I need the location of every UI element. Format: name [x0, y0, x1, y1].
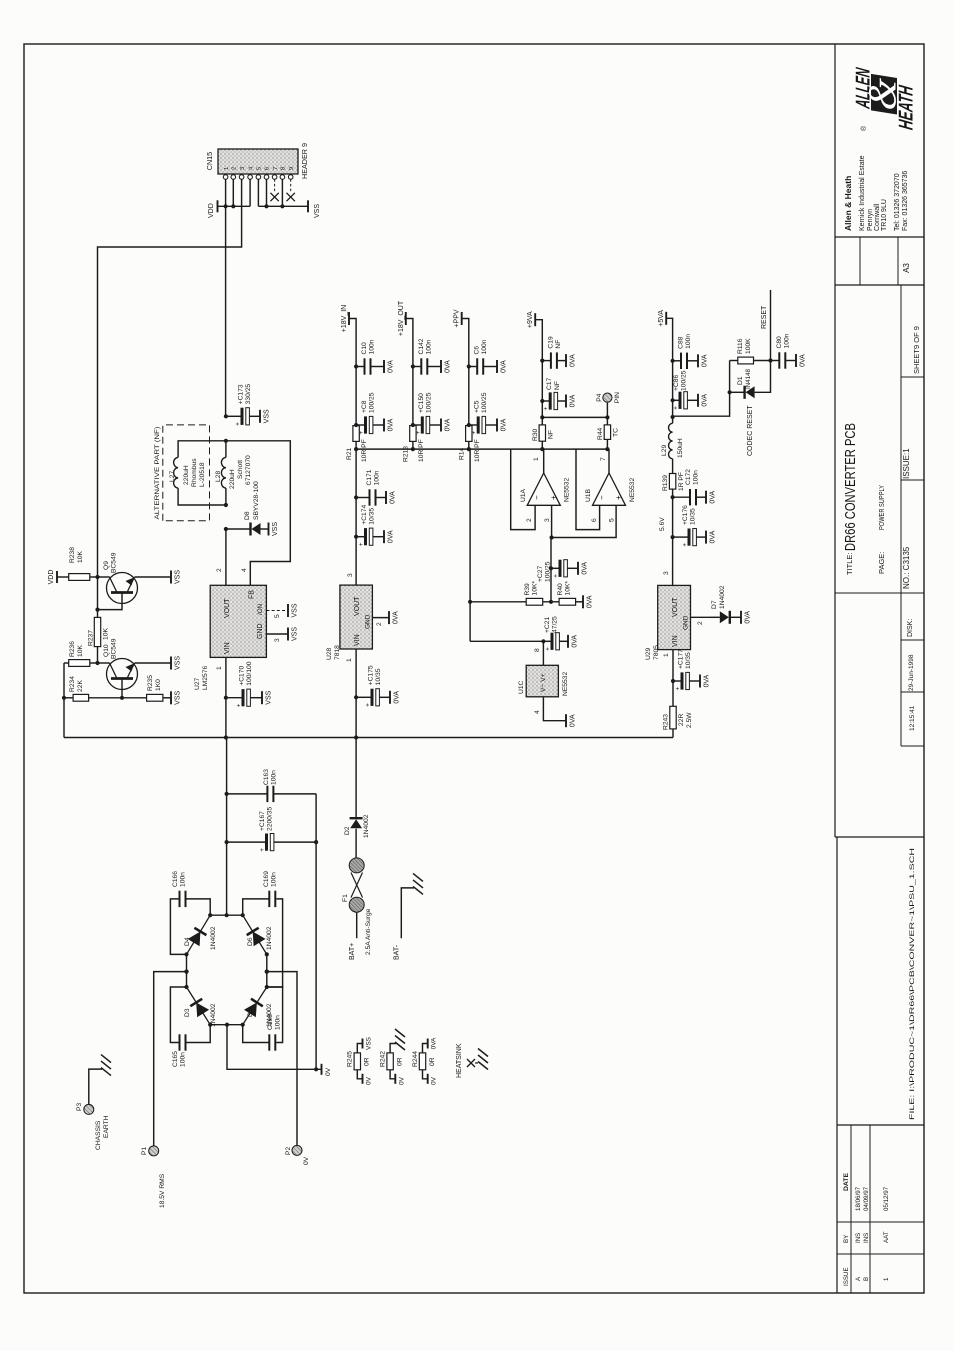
wire CN15 pin 5: [257, 179, 259, 206]
CN15 pin circles: [223, 175, 228, 180]
capacitor C166 100n across D4: [170, 899, 186, 955]
junction R234 link: [62, 696, 66, 700]
svg-text:C166: C166: [172, 871, 179, 887]
svg-text:U27: U27: [194, 677, 201, 690]
svg-text:R44: R44: [597, 427, 604, 440]
capacitor C165 100n across D3: [170, 987, 186, 1043]
svg-text:HEATSINK: HEATSINK: [456, 1043, 463, 1078]
diode D3 1N4002: [187, 987, 211, 1025]
svg-text:Kernick Industrial Estate: Kernick Industrial Estate: [859, 155, 866, 231]
junction L28 bottom: [224, 503, 228, 507]
pin P4: [603, 393, 612, 402]
wire Q9 emitter to VSS: [135, 576, 172, 578]
resistor R237: [94, 617, 100, 646]
wire U27 VOUT pin 2: [225, 529, 227, 585]
svg-text:+C173: +C173: [238, 384, 245, 404]
wire pin1 to VDD output node: [225, 206, 227, 416]
svg-text:CHASSIS: CHASSIS: [95, 1120, 102, 1150]
capacitor C168 100n across D5: [267, 987, 283, 1043]
resistor R39 10K*: [526, 598, 543, 605]
svg-text:18/06/97: 18/06/97: [855, 1186, 862, 1211]
svg-text:100n: 100n: [369, 339, 376, 354]
capacitor C175 10/35: [356, 696, 371, 698]
svg-text:2.5W: 2.5W: [686, 712, 693, 728]
svg-text:C17: C17: [546, 377, 553, 390]
junction P2 AC2: [265, 970, 269, 974]
junction C167 bottom: [314, 840, 318, 844]
svg-text:1: 1: [216, 666, 223, 670]
svg-text:2: 2: [697, 621, 704, 625]
wire Q10 emitter to VSS: [135, 662, 172, 664]
wire CN15 pin 6: [266, 179, 268, 206]
svg-text:INS: INS: [863, 1233, 870, 1243]
svg-text:0R: 0R: [397, 1057, 404, 1066]
pin P1 18.5V RMS: [149, 1146, 159, 1156]
svg-text:+: +: [471, 431, 478, 435]
junction C174: [354, 535, 358, 539]
svg-text:C172: C172: [685, 469, 692, 485]
svg-text:0VA: 0VA: [587, 595, 594, 608]
svg-text:D5: D5: [247, 1008, 254, 1017]
wire CN15 pin 3 net: [98, 179, 242, 578]
svg-text:SHEET9 OF 9: SHEET9 OF 9: [912, 326, 921, 374]
junction C171: [354, 495, 358, 499]
svg-text:100n: 100n: [271, 872, 278, 887]
svg-text:NO.: C3135: NO.: C3135: [902, 546, 911, 589]
chassis ground R242: [395, 1042, 405, 1050]
capacitor C80 100n: [771, 360, 780, 362]
junction rail/VDD line: [224, 735, 228, 739]
svg-text:0VA: 0VA: [431, 1037, 438, 1049]
svg-text:10K: 10K: [77, 645, 84, 657]
junction pin6-VSS: [264, 204, 268, 208]
svg-text:100n: 100n: [685, 334, 692, 349]
svg-text:+: +: [682, 543, 689, 547]
junction bus R21: [354, 447, 358, 451]
svg-text:0R: 0R: [429, 1057, 436, 1066]
resistor R244 0R: [419, 1053, 425, 1070]
svg-text:NE5532: NE5532: [629, 478, 636, 502]
svg-text:D2: D2: [344, 826, 351, 835]
diode D5 1N4002: [243, 987, 267, 1025]
svg-text:10K: 10K: [77, 551, 84, 563]
wire U27 FB pin 4: [226, 441, 290, 586]
svg-text:22R: 22R: [678, 714, 685, 726]
svg-text:+: +: [553, 574, 560, 578]
svg-text:POWER SUPPLY: POWER SUPPLY: [879, 485, 886, 530]
capacitor C170 100/100: [226, 697, 242, 699]
svg-text:VIN: VIN: [224, 642, 231, 654]
svg-text:0VA: 0VA: [704, 674, 711, 687]
svg-text:7: 7: [273, 167, 279, 170]
diode D8 SBYV28-100: [226, 528, 250, 530]
op-amp U1B NE5532: [593, 473, 626, 505]
resistor R242 0R: [387, 1053, 393, 1070]
wire RESET net: [770, 290, 772, 361]
transistor Q10: [107, 659, 138, 690]
svg-text:+: +: [358, 542, 365, 546]
junction C10: [354, 364, 358, 368]
wire R235 to VSS: [163, 697, 171, 699]
svg-text:D7: D7: [711, 600, 718, 609]
svg-text:1R PF: 1R PF: [678, 472, 685, 491]
svg-text:R243: R243: [663, 714, 670, 730]
wire U27 VIN: [225, 657, 227, 737]
svg-text:4: 4: [248, 166, 254, 170]
svg-text:C169: C169: [263, 871, 270, 887]
diode D2 1N4002: [350, 817, 363, 819]
svg-text:Cornwall: Cornwall: [874, 203, 881, 231]
wire Q10 base: [121, 679, 123, 698]
wire R243 to U29 VIN: [672, 650, 674, 707]
wire U1B feedback: [576, 449, 600, 530]
svg-text:1: 1: [346, 658, 353, 662]
svg-text:R245: R245: [347, 1051, 354, 1067]
svg-text:GND: GND: [683, 615, 690, 630]
inductor L28 220uH: [221, 457, 226, 488]
VSS symbol R235: [170, 691, 172, 704]
VSS symbol top-right: [307, 200, 309, 212]
wire CN15 pin 8: [281, 179, 283, 206]
svg-text:100K: 100K: [745, 338, 752, 354]
svg-text:67127070: 67127070: [245, 455, 252, 485]
junction U1A output: [540, 447, 544, 451]
wire U1C V- pin 4: [543, 697, 566, 721]
svg-text:0V: 0V: [366, 1076, 373, 1085]
svg-text:0VA: 0VA: [570, 714, 577, 727]
svg-text:0V: 0V: [325, 1067, 332, 1076]
junction C150: [411, 423, 415, 427]
svg-text:R213: R213: [403, 446, 410, 462]
title block outline: [834, 44, 836, 837]
svg-text:0VA: 0VA: [501, 360, 508, 373]
svg-text:0VA: 0VA: [388, 418, 395, 431]
svg-text:R30: R30: [532, 428, 539, 441]
svg-text:7818: 7818: [334, 645, 341, 660]
svg-text:100n: 100n: [275, 1015, 282, 1030]
capacitor C174 10/35: [356, 536, 364, 538]
svg-text:TITLE:: TITLE:: [845, 552, 854, 575]
wire U1A +input: [551, 505, 553, 537]
svg-text:0VA: 0VA: [572, 635, 579, 648]
svg-text:100/25: 100/25: [481, 392, 488, 413]
svg-text:0VA: 0VA: [800, 354, 807, 367]
svg-text:150uH: 150uH: [677, 438, 684, 458]
wire U1C V+ pin 8: [542, 641, 544, 665]
capacitor C10 100n: [356, 366, 364, 368]
svg-text:NF: NF: [548, 430, 555, 439]
svg-text:+18V_IN: +18V_IN: [341, 305, 348, 332]
wire Q9 collector: [98, 576, 110, 578]
svg-text:CN15: CN15: [205, 152, 214, 170]
junction C176: [671, 535, 675, 539]
svg-text:U1A: U1A: [520, 488, 527, 502]
svg-text:330/25: 330/25: [245, 384, 252, 405]
svg-text:+PPV: +PPV: [454, 309, 461, 327]
wire Q10 collector: [98, 662, 110, 664]
svg-text:R234: R234: [69, 676, 76, 692]
svg-text:+: +: [549, 495, 558, 500]
svg-text:0R: 0R: [364, 1057, 371, 1066]
svg-text:0V: 0V: [431, 1076, 438, 1085]
wire BAT- to chassis: [401, 888, 414, 938]
U28 GND pin to 0VA: [372, 617, 389, 619]
svg-text:L-20518: L-20518: [199, 462, 206, 487]
VSS symbol Q9 emitter: [170, 571, 172, 584]
junction P1 AC1: [184, 970, 188, 974]
0V terminator: [321, 1064, 323, 1075]
capacitor C88 100n: [673, 360, 681, 362]
capacitor C19 NF: [542, 360, 551, 362]
resistor R116 100K: [730, 360, 738, 362]
svg-text:BC549: BC549: [111, 638, 118, 659]
svg-text:C163: C163: [263, 769, 270, 785]
svg-text:Tel: 01326 372070: Tel: 01326 372070: [894, 173, 901, 231]
svg-text:+: +: [675, 687, 682, 691]
transistor Q9: [107, 573, 138, 604]
svg-text:+: +: [259, 848, 266, 852]
wire U1A output pin 1: [543, 449, 545, 473]
wire fuse to BAT+: [356, 912, 358, 938]
junction R39 R40 divider: [543, 601, 559, 603]
wire bridge zero bus: [210, 1024, 243, 1026]
wire U1A feedback: [511, 449, 535, 530]
svg-text:1N4002: 1N4002: [719, 585, 726, 609]
junction C21: [541, 639, 545, 643]
svg-text:0VA: 0VA: [702, 354, 709, 367]
wire U28 VOUT +18V_IN line: [355, 441, 357, 585]
svg-text:3: 3: [544, 518, 551, 522]
wire +18V_OUT row: [412, 441, 414, 449]
svg-text:Schott: Schott: [237, 460, 244, 479]
svg-text:6: 6: [265, 166, 271, 170]
wire R234 top stub: [64, 697, 73, 699]
wire R234 to base tee: [89, 697, 147, 699]
svg-text:P1: P1: [141, 1147, 148, 1155]
junction 0V return: [314, 1067, 318, 1071]
svg-text:VIN: VIN: [672, 635, 679, 647]
capacitor C5 100/25: [469, 424, 477, 426]
wire P1 to AC1: [154, 972, 187, 1146]
svg-text:C19: C19: [547, 336, 554, 349]
svg-text:05/12/97: 05/12/97: [883, 1186, 890, 1211]
wire D2 to fuse: [355, 829, 357, 858]
pin P3 chassis earth: [84, 1104, 94, 1114]
svg-text:C10: C10: [361, 342, 368, 355]
svg-text:0VA: 0VA: [582, 562, 589, 575]
capacitor C21 47/25: [543, 640, 551, 642]
svg-text:NE5532: NE5532: [562, 672, 569, 696]
junction C170: [224, 696, 228, 700]
wire C86 to C88: [672, 361, 674, 401]
wire U1B output pin 7: [608, 449, 610, 473]
svg-text:2: 2: [376, 622, 383, 626]
svg-text:5: 5: [274, 614, 281, 618]
wire CODEC RESET net: [673, 361, 730, 418]
svg-text:+5VA: +5VA: [658, 310, 665, 327]
wire VDD bus: [218, 205, 251, 207]
wire R245 to 0V: [357, 1070, 362, 1079]
svg-text:R237: R237: [88, 630, 95, 646]
svg-text:D8: D8: [244, 511, 251, 520]
resistor R213: [410, 426, 416, 442]
svg-text:VOUT: VOUT: [224, 598, 231, 618]
svg-text:+C170: +C170: [239, 666, 246, 686]
wire 0V return line: [315, 794, 317, 1069]
wire C150 to C142: [412, 367, 414, 426]
svg-text:L28: L28: [215, 471, 222, 482]
diode D1 IN4148: [730, 391, 744, 393]
capacitor C169 100n across D6: [267, 899, 283, 987]
svg-text:U1B: U1B: [585, 488, 592, 502]
wire R236 bottom to node: [90, 662, 98, 664]
svg-text:D1: D1: [737, 376, 744, 385]
svg-text:A: A: [855, 1276, 862, 1281]
svg-text:10R PF: 10R PF: [418, 439, 425, 462]
svg-text:LM2576: LM2576: [202, 666, 209, 690]
svg-text:+: +: [235, 422, 242, 426]
svg-text:BAT-: BAT-: [394, 944, 401, 960]
svg-text:10/35: 10/35: [375, 668, 382, 685]
svg-text:PIN: PIN: [614, 392, 621, 403]
svg-text:R40: R40: [557, 583, 564, 596]
svg-text:PAGE:: PAGE:: [877, 552, 886, 574]
svg-text:L29: L29: [661, 445, 668, 456]
svg-text:100/100: 100/100: [246, 661, 253, 685]
svg-text:1N4002: 1N4002: [266, 926, 273, 950]
svg-text:DATE: DATE: [843, 1173, 850, 1191]
svg-text:ISSUE: ISSUE: [843, 1267, 850, 1286]
svg-text:F1: F1: [342, 894, 349, 902]
wire P3 to chassis: [89, 1069, 102, 1104]
power flag +18V_OUT: [406, 319, 413, 367]
svg-text:10R PF: 10R PF: [474, 439, 481, 462]
wire P4 branch: [542, 403, 607, 418]
svg-text:100n: 100n: [481, 339, 488, 354]
junction pin2-VDD: [231, 204, 235, 208]
svg-text:04/09/97: 04/09/97: [863, 1186, 870, 1211]
svg-text:+: +: [543, 407, 550, 411]
junction RESET node: [768, 358, 772, 362]
wire R238 to node: [90, 576, 98, 578]
junction C19: [540, 358, 544, 362]
junction Q9 base tee: [95, 607, 99, 611]
capacitor C163 100n in series: [266, 786, 268, 802]
revision table: [837, 1253, 924, 1255]
svg-text:0VA: 0VA: [445, 418, 452, 431]
svg-text:+C21: +C21: [544, 617, 551, 633]
wire U28 line to D2: [355, 738, 357, 818]
svg-text:Rhombus: Rhombus: [191, 458, 198, 487]
wire R237 to Q9 area: [97, 610, 99, 618]
svg-text:100/25: 100/25: [681, 370, 688, 391]
wire C163 branch: [227, 793, 268, 795]
junction CODEC RESET branch: [671, 415, 675, 419]
junction R238/Q9 collector: [95, 575, 99, 579]
svg-text:10R PF: 10R PF: [361, 439, 368, 462]
svg-text:ISSUE:1: ISSUE:1: [902, 448, 911, 479]
wire R236 top stub: [64, 662, 69, 664]
Allen & Heath logo: [853, 66, 918, 131]
junction L28 top / FB tap: [224, 439, 228, 443]
capacitor C177 10/35: [673, 680, 681, 682]
capacitor C167 2200/35 in series: [265, 834, 268, 851]
wire R139 to L29: [672, 459, 674, 474]
svg-text:0VA: 0VA: [745, 611, 752, 624]
svg-text:P3: P3: [76, 1103, 83, 1111]
svg-text:7805: 7805: [653, 645, 660, 660]
svg-text:U28: U28: [326, 647, 333, 660]
junction C17: [540, 399, 544, 403]
svg-text:AAT: AAT: [883, 1231, 890, 1243]
wire R244 to 0V: [423, 1070, 428, 1079]
svg-text:BY: BY: [843, 1235, 850, 1243]
svg-text:Fax: 01326 365736: Fax: 01326 365736: [902, 171, 909, 231]
junction C88: [671, 359, 675, 363]
resistor R235: [147, 694, 163, 701]
svg-text:D4: D4: [184, 937, 191, 946]
svg-text:+: +: [236, 703, 243, 707]
svg-text:Allen & Heath: Allen & Heath: [843, 176, 853, 231]
svg-text:D6: D6: [247, 937, 254, 946]
svg-text:C171: C171: [366, 469, 373, 485]
svg-text:P2: P2: [285, 1147, 292, 1155]
wire R244 to 0VA: [423, 1044, 428, 1053]
connector CN15: [218, 149, 298, 174]
svg-text:2.5A Anti-Surge: 2.5A Anti-Surge: [365, 908, 372, 955]
junction C172: [671, 495, 675, 499]
svg-text:FB: FB: [249, 590, 256, 599]
svg-text:®: ®: [860, 125, 868, 131]
svg-text:0V: 0V: [303, 1156, 310, 1165]
capacitor C150 100/25: [412, 424, 414, 427]
svg-text:U29: U29: [645, 647, 652, 660]
svg-text:+C167: +C167: [259, 811, 266, 831]
svg-text:0VA: 0VA: [501, 418, 508, 431]
junction R236/Q10 collector: [95, 661, 99, 665]
svg-text:EARTH: EARTH: [103, 1115, 110, 1138]
wire R116 to reset node: [754, 360, 771, 362]
svg-text:0VA: 0VA: [570, 394, 577, 407]
wire R39 branch down: [470, 601, 526, 603]
wire U1B +input: [552, 505, 617, 537]
wire Q9 base: [98, 593, 123, 610]
resistor R139 1R PF: [669, 474, 675, 490]
junction C175: [354, 695, 358, 699]
svg-text:+C175: +C175: [368, 665, 375, 685]
svg-text:R116: R116: [737, 338, 744, 354]
svg-text:+C150: +C150: [418, 393, 425, 413]
capacitor C173 330/25: [226, 415, 241, 417]
wire P2 to AC2: [267, 972, 297, 1146]
svg-text:100n: 100n: [374, 470, 381, 485]
svg-text:5: 5: [257, 166, 263, 170]
U27 GND pin to VSS: [266, 633, 288, 635]
wire R21 right to C8: [355, 424, 357, 427]
svg-text:R39: R39: [524, 583, 531, 596]
capacitor C142 100n: [413, 366, 421, 368]
IC U27 LM2576: [210, 585, 266, 657]
svg-text:R14: R14: [459, 447, 466, 460]
svg-text:BAT+: BAT+: [349, 943, 356, 960]
svg-text:R21: R21: [346, 447, 353, 460]
wire +PPV extension: [469, 448, 470, 450]
svg-text:Q9: Q9: [103, 561, 110, 570]
junction R44 P4: [605, 415, 609, 419]
junction pin1-VDD: [224, 204, 228, 208]
svg-text:2200/35: 2200/35: [267, 807, 274, 831]
svg-text:C142: C142: [418, 338, 425, 354]
